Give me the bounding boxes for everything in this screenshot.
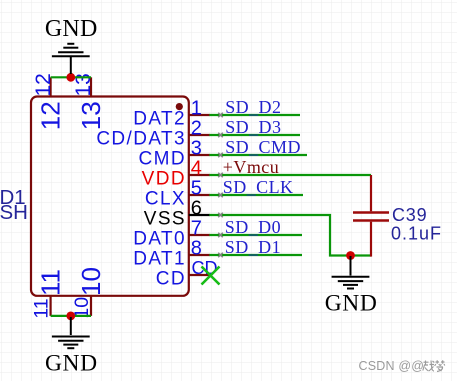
svg-text:11: 11	[30, 298, 52, 318]
svg-text:C39: C39	[392, 205, 427, 225]
wire pin6 VSS to GND	[209, 215, 371, 256]
svg-text:SD_D1: SD_D1	[225, 237, 281, 257]
capacitor C39	[353, 175, 389, 257]
wire pin4 +Vmcu to C39	[209, 174, 371, 176]
pin 1 stub	[189, 114, 210, 116]
wire pin1 SD_D2	[209, 114, 300, 116]
svg-text:CLX: CLX	[145, 189, 186, 210]
svg-text:CSDN @@: CSDN @@	[359, 359, 425, 373]
svg-text:6: 6	[191, 198, 202, 220]
wire pin5 SD_CLK	[209, 194, 303, 196]
svg-text:8: 8	[191, 238, 202, 260]
svg-text:VSS: VSS	[144, 209, 186, 230]
svg-text:CD: CD	[156, 269, 186, 290]
pin 4 stub	[189, 174, 210, 176]
svg-text:5: 5	[191, 178, 202, 200]
junction dot bottom-left	[66, 312, 75, 321]
svg-text:SH: SH	[0, 201, 28, 224]
pin 11 stub (bottom)	[49, 296, 51, 316]
svg-text:GND: GND	[325, 290, 378, 316]
svg-text:GND: GND	[45, 16, 98, 42]
svg-text:2: 2	[191, 118, 202, 140]
svg-text:DAT1: DAT1	[133, 249, 186, 270]
svg-text:+Vmcu: +Vmcu	[223, 157, 279, 177]
pin 2 stub	[189, 134, 210, 136]
pin 8 stub	[189, 254, 210, 256]
svg-text:0.1uF: 0.1uF	[391, 224, 442, 244]
svg-text:DAT2: DAT2	[133, 109, 186, 130]
pin 13 stub (top)	[90, 77, 92, 96]
svg-text:SD_CMD: SD_CMD	[225, 137, 301, 157]
symbol dot (pin1 marker)	[176, 103, 183, 110]
svg-text:DAT0: DAT0	[133, 229, 186, 250]
component U/D1 body	[31, 97, 189, 296]
svg-text:11: 11	[36, 269, 66, 296]
pin 7 stub	[189, 234, 210, 236]
ground symbol under C39	[332, 256, 370, 289]
ground symbol top (inverted)	[52, 44, 90, 74]
pin 3 stub	[189, 154, 210, 156]
svg-text:SD_CLK: SD_CLK	[223, 177, 294, 197]
junction dot C39/GND	[346, 251, 355, 260]
svg-text:3: 3	[191, 138, 202, 160]
wire pin3 SD_CMD	[209, 154, 307, 156]
pin 6 stub	[189, 214, 210, 216]
ground symbol bottom-left	[52, 317, 90, 348]
svg-text:10: 10	[76, 267, 106, 296]
svg-text:CD/DAT3: CD/DAT3	[96, 129, 186, 150]
svg-text:SD_D2: SD_D2	[225, 97, 281, 117]
wire pin7 SD_D0	[209, 234, 302, 236]
wire pin8 SD_D1	[209, 254, 302, 256]
pin 10 stub (bottom)	[90, 296, 92, 316]
wire pin2 SD_D3	[209, 134, 300, 136]
pin-end markers	[218, 113, 223, 257]
wire bottom GND jumper	[51, 315, 91, 317]
svg-text:VDD: VDD	[142, 169, 186, 190]
pin CD stub	[189, 274, 211, 276]
svg-text:4: 4	[191, 158, 202, 180]
svg-text:SD_D0: SD_D0	[225, 217, 281, 237]
svg-text:1: 1	[191, 98, 202, 120]
pin 5 stub	[189, 194, 210, 196]
no-ERC cross on CD pin	[202, 267, 220, 285]
pin 12 stub (top)	[49, 77, 51, 96]
svg-text:13: 13	[76, 101, 106, 130]
junction dot top	[66, 73, 75, 82]
svg-text:7: 7	[191, 218, 202, 240]
wire top GND jumper	[51, 76, 91, 78]
svg-text:12: 12	[36, 101, 66, 130]
svg-text:CMD: CMD	[139, 149, 186, 170]
svg-text:SD_D3: SD_D3	[225, 117, 281, 137]
svg-text:GND: GND	[45, 350, 98, 376]
